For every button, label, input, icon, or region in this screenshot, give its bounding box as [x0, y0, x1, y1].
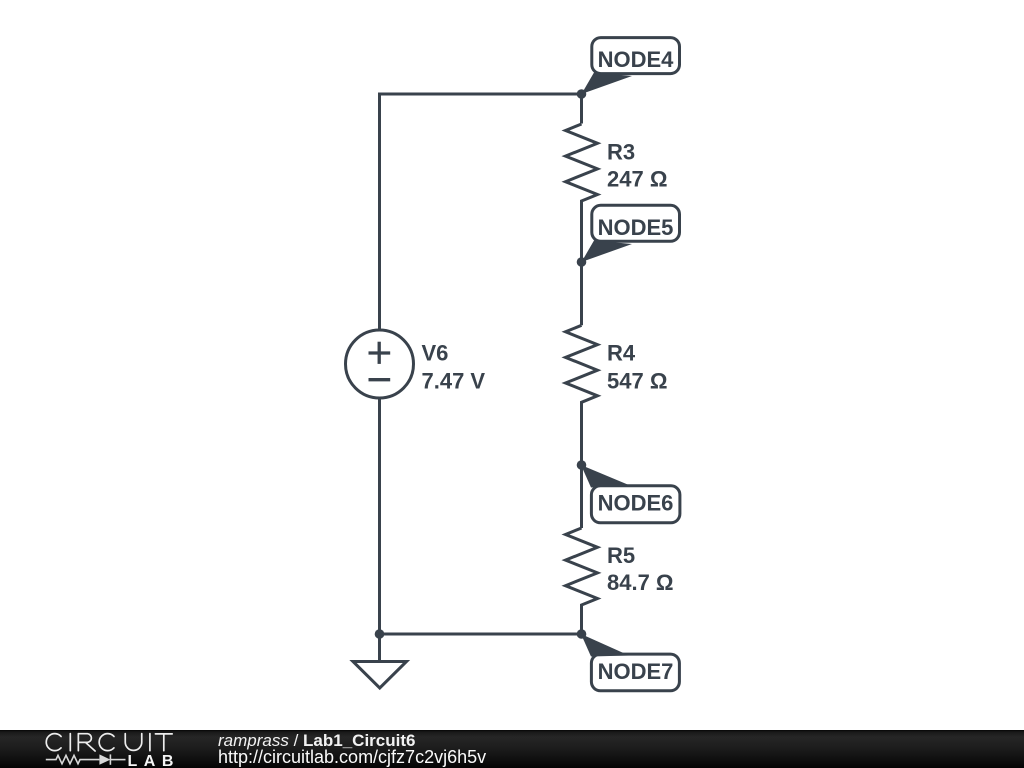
- svg-text:7.47 V: 7.47 V: [422, 369, 486, 394]
- svg-text:LAB: LAB: [128, 752, 180, 767]
- svg-text:NODE5: NODE5: [598, 215, 674, 240]
- svg-text:V6: V6: [422, 341, 449, 366]
- svg-text:547 Ω: 547 Ω: [607, 369, 667, 394]
- svg-text:NODE4: NODE4: [598, 47, 675, 72]
- svg-text:R4: R4: [607, 341, 636, 366]
- svg-text:R5: R5: [607, 543, 635, 568]
- svg-text:NODE7: NODE7: [598, 659, 674, 684]
- svg-text:247 Ω: 247 Ω: [607, 167, 667, 192]
- svg-text:84.7 Ω: 84.7 Ω: [607, 570, 674, 595]
- svg-text:NODE6: NODE6: [598, 490, 674, 515]
- svg-text:R3: R3: [607, 140, 635, 165]
